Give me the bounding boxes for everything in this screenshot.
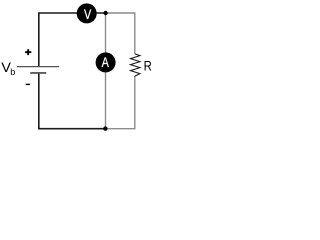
label + polarity <box>27 49 29 55</box>
wire: bottom-right grey segment from resistor branch <box>106 76 135 128</box>
wire: middle grey ammeter branch <box>105 13 107 129</box>
wire: left/bottom black loop (battery - to bottom node) <box>39 74 106 129</box>
label - polarity <box>26 84 30 85</box>
voltmeter V body <box>77 3 97 23</box>
svg-text:A: A <box>102 55 110 71</box>
wire: top-right grey segment to resistor branch <box>106 13 135 54</box>
svg-text:V: V <box>84 7 92 23</box>
wire: left/top black loop (battery + to top node) <box>39 13 106 66</box>
svg-text:R: R <box>144 58 152 73</box>
node: top junction dot <box>103 11 107 15</box>
svg-text:b: b <box>10 67 15 77</box>
node: bottom junction dot <box>103 126 107 130</box>
ammeter A body <box>96 52 116 72</box>
resistor R zigzag <box>131 54 140 77</box>
battery Vb long plate (+) <box>17 66 59 68</box>
battery Vb short plate (-) <box>30 72 46 74</box>
